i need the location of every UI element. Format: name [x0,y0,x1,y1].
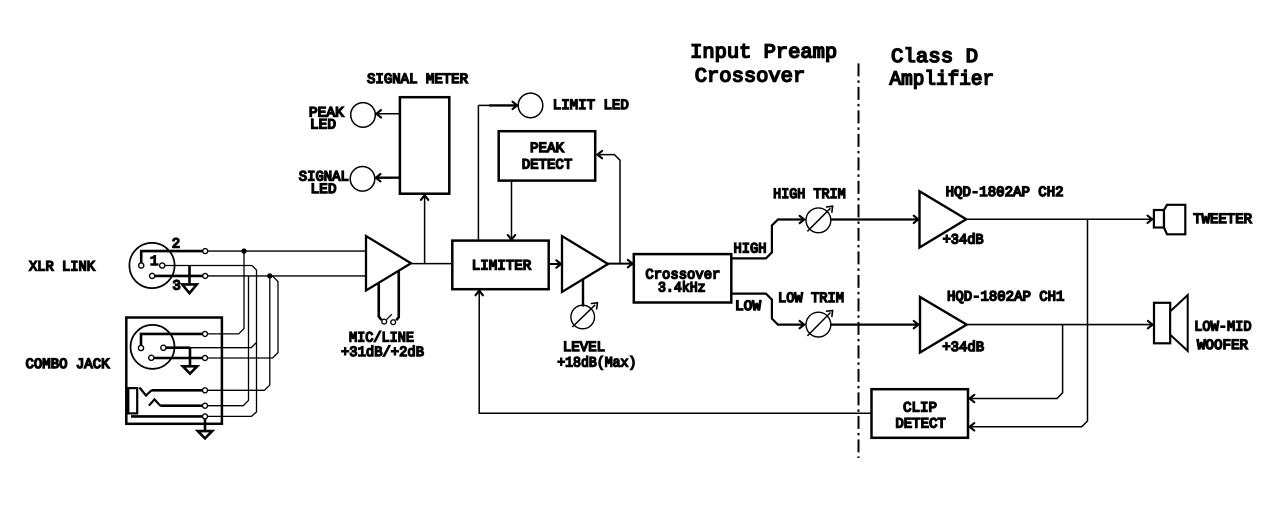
J2 pin 2 [138,331,207,350]
svg-text:LIMIT LED: LIMIT LED [553,98,629,114]
wire CLIP DETECT feedback to LIMITER [476,291,872,414]
J2 sleeve line [131,414,208,419]
wire cold drop to combo T3 [208,276,270,390]
wire PEAK DETECT to LIMITER [508,181,515,240]
potentiometer VR3 LOW TRIM [806,311,833,338]
op-amp U3 HQD-1802AP CH2 [920,191,967,247]
svg-text:3: 3 [172,278,180,294]
wire combo pin1 stub to ground bus [190,342,257,347]
svg-text:COMBO JACK: COMBO JACK [26,357,110,373]
speaker LS1 tweeter symbol [1154,205,1185,235]
J2 pin 3 [149,355,208,360]
J1 pin 1 [160,263,252,268]
wire CH1 branch to clip detect [970,325,1063,403]
op-amp U2 LEVEL [562,236,608,292]
LIMIT LED D3 [518,93,543,118]
wire hot net pin2 to preamp [208,250,366,252]
wire U1 out to LIMITER [411,263,452,265]
J2 tip switch contact [140,388,208,396]
svg-text:1: 1 [150,254,158,270]
wire meter to PEAK LED [376,110,400,117]
COMBO JACK connector J2 [126,318,222,424]
J2 ring switch contact [149,399,208,408]
svg-text:HIGH: HIGH [734,241,767,257]
section header Class D Amplifier [890,46,995,92]
U1 gain select switch [379,271,399,325]
svg-text:LEVEL: LEVEL [563,340,605,356]
svg-text:LIMITER: LIMITER [472,259,532,275]
wire LOW TRIM to U4 [831,321,919,328]
svg-text:Crossover: Crossover [695,66,806,89]
svg-text:LOW: LOW [735,299,761,315]
J2 pin 1 [161,345,190,350]
svg-text:LED: LED [310,117,336,133]
section header Input Preamp Crossover [690,42,837,89]
wire riser to PEAK DETECT [597,151,620,264]
wire riser to signal meter [421,195,428,263]
J1 pin 2 [139,249,208,269]
svg-text:DETECT: DETECT [522,158,573,174]
J1 pin 3 [150,273,208,278]
section divider dash-dot line [858,63,860,458]
LIMITER box [452,241,548,290]
wire LIMITER out to LEVEL [549,260,561,267]
wire hot drop to combo tip T1 [208,251,244,334]
wire crossover HIGH out [731,216,804,259]
svg-text:2: 2 [172,237,180,253]
wire U3 out to tweeter [966,216,1152,223]
wire HIGH TRIM to U3 [831,216,919,223]
wire combo T2 riser to cold net [208,276,278,358]
ground GND3 (combo sleeve) [198,419,212,439]
label SIGNAL LED [299,169,349,198]
wire cold net pin3 to preamp [208,275,366,277]
svg-text:PEAK: PEAK [530,141,564,157]
svg-text:+34dB: +34dB [943,233,984,249]
svg-text:SIGNAL METER: SIGNAL METER [367,72,468,88]
wire CH2 branch to clip detect [970,219,1088,430]
potentiometer VR2 HIGH TRIM [806,206,833,233]
svg-text:LED: LED [311,182,337,198]
wire U4 out to woofer [967,321,1153,328]
ground GND2 (combo pin 1) [183,348,197,374]
svg-text:+31dB/+2dB: +31dB/+2dB [341,345,424,361]
svg-text:HQD-1802AP CH2: HQD-1802AP CH2 [946,185,1064,201]
wire meter to SIGNAL LED [376,174,400,181]
svg-text:MIC/LINE: MIC/LINE [349,330,414,346]
svg-text:TWEETER: TWEETER [1193,212,1252,228]
svg-text:DETECT: DETECT [895,417,946,433]
SIGNAL METER box [400,97,449,194]
PEAK DETECT box [499,131,596,180]
svg-text:3.4kHz: 3.4kHz [658,281,706,297]
svg-text:LOW-MID: LOW-MID [1194,320,1251,336]
wire crossover LOW out [731,294,804,329]
wire ground bus drop [208,266,257,417]
PEAK LED D1 [351,103,376,128]
svg-text:+18dB(Max): +18dB(Max) [557,355,636,371]
ground GND1 (XLR pin 1) [182,266,197,294]
svg-text:Input Preamp: Input Preamp [690,42,837,65]
op-amp U4 HQD-1802AP CH1 [920,297,967,353]
svg-text:Amplifier: Amplifier [890,69,995,92]
svg-text:HQD-1802AP CH1: HQD-1802AP CH1 [947,289,1065,305]
svg-text:Class D: Class D [891,46,978,69]
svg-text:CLIP: CLIP [903,400,937,416]
speaker LS2 woofer symbol [1154,295,1188,351]
svg-text:LOW TRIM: LOW TRIM [778,291,844,307]
svg-text:HIGH TRIM: HIGH TRIM [773,187,846,203]
wire LIMITER to LIMIT LED [478,102,517,241]
Crossover box [634,254,732,302]
wire U2 out to crossover [608,260,633,267]
potentiometer VR1 LEVEL [571,303,598,329]
svg-text:+34dB: +34dB [942,340,984,356]
op-amp U1 MIC/LINE preamp [366,236,411,291]
node hot junction [241,248,246,253]
J2 TRS sleeve contact [128,388,137,413]
svg-text:XLR LINK: XLR LINK [29,259,95,275]
label PEAK LED [309,105,344,133]
SIGNAL LED D2 [350,167,375,192]
node cold junction [267,273,272,278]
XLR connector J1 [129,243,174,288]
svg-text:WOOFER: WOOFER [1197,338,1248,354]
CLIP DETECT box [872,389,969,438]
wire U2 to level pot [582,279,584,306]
wire cold drop to combo ring T4 [208,276,249,406]
